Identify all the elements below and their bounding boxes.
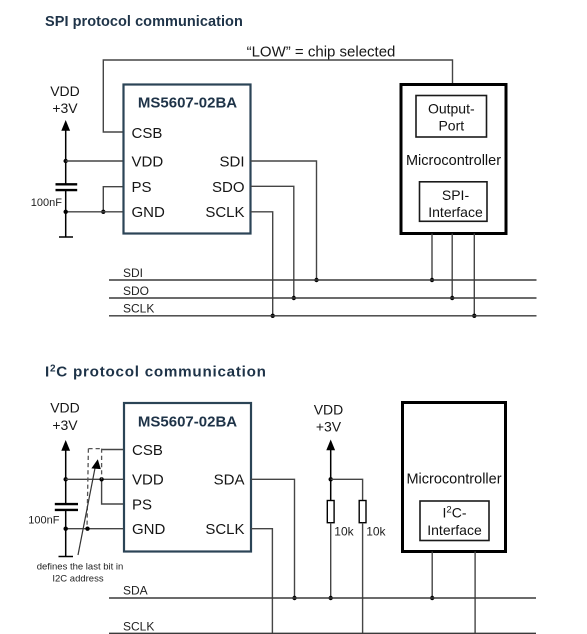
svg-text:MS5607-02BA: MS5607-02BA	[138, 95, 237, 112]
SPI-Interface box	[420, 182, 488, 222]
dashed option wire CSB to GND wire	[87, 449, 88, 529]
junction dot VDD rail / VDD pin wire (I2C)	[63, 477, 67, 481]
svg-text:100nF: 100nF	[28, 514, 59, 526]
label: "LOW" = chip selected	[247, 44, 396, 61]
pin label SDI (U1)	[219, 154, 244, 171]
svg-text:Microcontroller: Microcontroller	[406, 153, 501, 169]
wire microcontroller pin to SDI bus	[431, 234, 433, 281]
wire GND pin to rail	[66, 211, 124, 213]
svg-text:I2C protocol communication: I2C protocol communication	[45, 363, 267, 380]
svg-text:SDO: SDO	[123, 284, 149, 298]
pin label GND (U2)	[132, 521, 166, 538]
svg-text:SDA: SDA	[123, 584, 148, 598]
svg-text:GND: GND	[132, 521, 166, 538]
chip U2 title label	[138, 413, 237, 430]
pin label PS (U2)	[132, 497, 152, 514]
annotation arrowhead	[91, 459, 100, 469]
svg-text:Output-: Output-	[428, 100, 475, 116]
pin label SDO (U1)	[212, 179, 245, 196]
svg-text:defines the last bit in: defines the last bit in	[37, 561, 124, 572]
pin label CSB (U1)	[132, 125, 163, 142]
annotation text: defines the last bit in I2C address	[37, 561, 124, 584]
pin label VDD (U2)	[132, 472, 164, 489]
title: SPI protocol communication	[45, 14, 243, 30]
wire R2 to SCLK bus	[362, 523, 364, 634]
svg-text:SCLK: SCLK	[123, 620, 154, 634]
svg-text:GND: GND	[132, 204, 166, 221]
value label 100nF (I2C)	[28, 514, 59, 526]
svg-text:SCLK: SCLK	[123, 302, 154, 316]
wire SDA from chip to bus	[251, 479, 295, 598]
svg-text:10k: 10k	[366, 525, 386, 539]
chip U2 MS5607-02BA (I2C)	[124, 403, 251, 552]
wire CSB stub (I2C)	[102, 449, 124, 451]
svg-text:MS5607-02BA: MS5607-02BA	[138, 413, 237, 430]
wire VDD rail to chip VDD pin	[66, 160, 124, 162]
svg-text:CSB: CSB	[132, 442, 163, 459]
supply VDD +3V (SPI, left)	[50, 83, 80, 116]
label Microcontroller (SPI)	[406, 153, 501, 169]
ground termination bar (I2C)	[59, 556, 74, 558]
wire pull-up node to R2	[331, 479, 363, 500]
junction dot mc/SDA	[430, 596, 434, 600]
junction dot pull-up node	[329, 477, 333, 481]
pin label GND (U1)	[132, 204, 166, 221]
label Microcontroller (I2C)	[406, 472, 501, 488]
bus label SDI	[123, 266, 143, 280]
value label 10k (R1)	[334, 525, 354, 539]
svg-text:100nF: 100nF	[31, 197, 62, 209]
svg-text:Interface: Interface	[427, 522, 482, 538]
annotation arrow line	[78, 463, 96, 555]
microcontroller box (SPI)	[401, 85, 506, 234]
svg-text:SDI: SDI	[219, 154, 244, 171]
pin label PS (U1)	[132, 179, 152, 196]
wire CSB net: chip CSB pin up and over to microcontroller top	[103, 60, 452, 132]
junction dot mc/SDI	[430, 278, 434, 282]
value label 100nF (SPI)	[31, 197, 62, 209]
Output-Port box	[416, 96, 487, 138]
svg-text:SCLK: SCLK	[205, 521, 244, 538]
resistor R2 10k	[359, 501, 366, 523]
pin label SCLK (U1)	[205, 204, 244, 221]
svg-text:+3V: +3V	[52, 417, 78, 433]
wire SCLK from chip to bus	[251, 529, 272, 634]
wire R1 to SDA bus	[330, 523, 332, 598]
svg-text:Interface: Interface	[428, 204, 483, 220]
title: I2C protocol communication	[45, 363, 267, 380]
VDD arrow (I2C left)	[61, 440, 70, 503]
junction dot SDI bus	[314, 278, 318, 282]
wire microcontroller pin to SCLK bus	[473, 234, 475, 316]
I2C-Interface box	[420, 501, 489, 541]
ground termination bar (SPI)	[59, 236, 73, 238]
VDD rail lower segment (SPI)	[65, 190, 67, 237]
pin label SDA (U2)	[214, 472, 245, 489]
svg-text:CSB: CSB	[132, 125, 163, 142]
supply VDD +3V (I2C, pull-ups)	[314, 402, 344, 435]
pin label CSB (U2)	[132, 442, 163, 459]
pin label VDD (U1)	[132, 154, 164, 171]
svg-text:10k: 10k	[334, 525, 354, 539]
junction dot PS/GND	[101, 210, 105, 214]
capacitor C2 100nF (I2C)	[55, 504, 78, 510]
microcontroller box (I2C)	[403, 403, 506, 552]
junction dot chip/SDA bus	[292, 596, 296, 600]
chip U1 title label	[138, 95, 237, 112]
svg-text:SDA: SDA	[214, 472, 245, 489]
pin label SCLK (U2)	[205, 521, 244, 538]
dashed option wire CSB horizontal	[88, 448, 101, 450]
svg-text:“LOW” = chip selected: “LOW” = chip selected	[247, 44, 396, 61]
wire microcontroller pin to SDO bus	[451, 234, 453, 299]
bus label SDA	[123, 584, 148, 598]
chip U1 MS5607-02BA (SPI)	[124, 85, 251, 234]
svg-text:VDD: VDD	[132, 154, 164, 171]
bus line SCLK	[109, 315, 537, 317]
svg-text:VDD: VDD	[50, 83, 80, 99]
junction dot PS/VDD	[99, 477, 103, 481]
junction dot mc/SCLK	[472, 314, 476, 318]
junction dot mc/SDO	[450, 296, 454, 300]
wire VDD rail to chip VDD pin (I2C)	[66, 478, 124, 480]
bus label SDO	[123, 284, 149, 298]
wire mc pin to SDA bus (I2C)	[431, 552, 433, 599]
capacitor C1 100nF (SPI)	[56, 184, 78, 190]
wire SDI from chip to bus	[251, 161, 317, 280]
svg-text:VDD: VDD	[132, 472, 164, 489]
svg-text:SCLK: SCLK	[205, 204, 244, 221]
svg-text:+3V: +3V	[316, 419, 342, 435]
wire PS pin to GND wire	[103, 187, 123, 212]
dashed option wire CSB to VDD node	[101, 449, 103, 480]
wire SDO from chip to bus	[251, 186, 294, 298]
bus line SDO	[109, 297, 537, 299]
bus line SDA	[109, 597, 536, 599]
wire GND pin to rail (I2C)	[66, 528, 124, 530]
bus line SDI	[109, 279, 537, 281]
wire PS pin tied to VDD node	[102, 479, 124, 504]
svg-text:SDO: SDO	[212, 179, 245, 196]
svg-text:SPI-: SPI-	[442, 187, 470, 203]
svg-text:I2C address: I2C address	[52, 574, 103, 585]
svg-text:Port: Port	[438, 118, 464, 134]
svg-text:PS: PS	[132, 497, 152, 514]
svg-text:+3V: +3V	[52, 100, 78, 116]
bus label SCLK	[123, 302, 154, 316]
supply VDD +3V (I2C, left)	[50, 400, 80, 434]
VDD arrow (SPI)	[61, 120, 70, 184]
svg-text:Microcontroller: Microcontroller	[406, 472, 501, 488]
junction dot GND rail	[63, 210, 67, 214]
svg-text:PS: PS	[132, 179, 152, 196]
svg-text:VDD: VDD	[314, 402, 344, 418]
junction dot SDO bus	[292, 296, 296, 300]
bus line SCLK (I2C)	[109, 632, 536, 634]
junction dot dashed/GND	[85, 527, 89, 531]
junction dot GND rail (I2C)	[63, 527, 67, 531]
svg-text:SPI protocol communication: SPI protocol communication	[45, 14, 243, 30]
junction dot R1/SDA	[329, 596, 333, 600]
junction dot VDD rail / VDD pin wire	[63, 159, 67, 163]
wire mc pin to SCLK bus (I2C)	[474, 552, 476, 634]
resistor R1 10k	[327, 501, 334, 523]
wire SCLK from chip to bus	[251, 212, 273, 316]
svg-text:VDD: VDD	[50, 400, 80, 416]
VDD arrow (pull-ups)	[326, 440, 335, 501]
svg-text:I2C-: I2C-	[443, 504, 467, 520]
VDD rail lower segment (I2C)	[65, 510, 67, 557]
bus label SCLK (I2C)	[123, 620, 154, 634]
junction dot SCLK bus (chip side)	[271, 314, 275, 318]
svg-text:SDI: SDI	[123, 266, 143, 280]
value label 10k (R2)	[366, 525, 386, 539]
